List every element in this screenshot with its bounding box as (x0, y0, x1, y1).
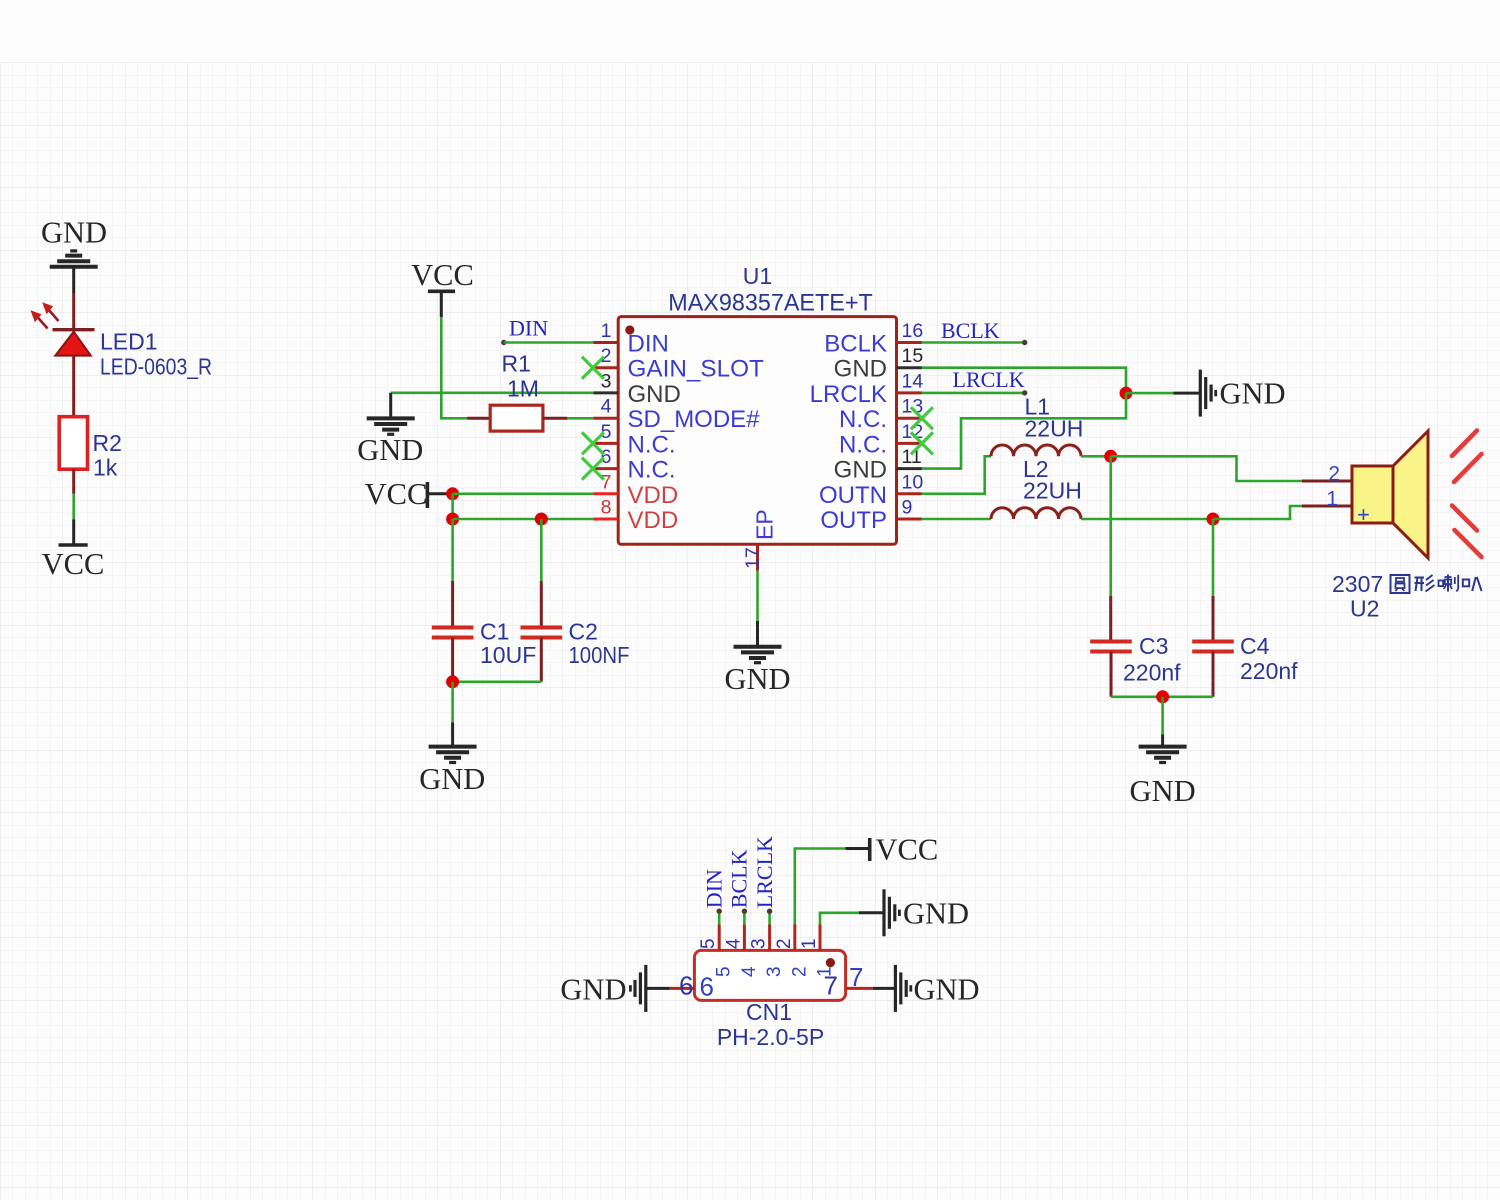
svg-text:C4: C4 (1240, 633, 1270, 659)
junction node C3/C4 GND (1156, 690, 1169, 703)
svg-text:GND: GND (914, 973, 980, 1007)
svg-text:4: 4 (601, 396, 612, 418)
svg-text:GND: GND (834, 457, 887, 484)
svg-text:LRCLK: LRCLK (953, 367, 1025, 392)
svg-text:GND: GND (41, 216, 107, 250)
pin 4 (CN1 top) (743, 925, 746, 951)
no-connect X pin 13 (911, 407, 933, 429)
pin 1 (U2 speaker) (1302, 505, 1352, 508)
pin 5 N.C. (U1 left) (594, 442, 619, 445)
svg-text:R1: R1 (502, 351, 531, 377)
power flag VCC (below R2) (59, 543, 88, 547)
svg-text:7: 7 (601, 471, 612, 493)
svg-text:OUTP: OUTP (820, 507, 887, 534)
svg-text:1: 1 (1326, 488, 1338, 511)
pin 7 VDD (U1 left) (594, 492, 619, 495)
wire (junction down to pin 11) (922, 393, 1126, 469)
svg-text:GND: GND (834, 356, 887, 383)
svg-text:OUTN: OUTN (819, 482, 887, 509)
wire (VCC to pin 7) (453, 492, 594, 495)
svg-text:GND: GND (560, 973, 626, 1007)
svg-text:U1: U1 (743, 263, 772, 289)
wire (C1/C2 bottoms joined) (453, 680, 542, 683)
LED LED1 (53, 328, 95, 331)
svg-text:N.C.: N.C. (628, 431, 676, 458)
wire (pin 3 stub) (768, 912, 771, 925)
svg-text:220nf: 220nf (1123, 660, 1181, 686)
ground (CN1 pin 1) (882, 889, 885, 936)
pin 3 GND (U1 left) (594, 391, 619, 394)
svg-text:C2: C2 (569, 619, 598, 645)
wire (pin 10 OUTN to L1) (922, 456, 991, 494)
wire (pin 7 to GND) (873, 987, 896, 990)
ground (CN1 left) (644, 965, 647, 1012)
svg-text:R2: R2 (93, 430, 122, 456)
wire (L2 to junction) (1081, 518, 1213, 521)
pin 11 GND (U1 right) (897, 467, 922, 470)
wire (R1 to pin 4) (567, 417, 593, 420)
svg-text:GND: GND (1130, 774, 1196, 808)
svg-text:GND: GND (628, 381, 681, 408)
wire (L1 junction to speaker pin 2) (1111, 456, 1302, 481)
pin 3 (CN1 top) (768, 925, 771, 951)
wire (pin 9 OUTP to L2) (922, 518, 991, 521)
svg-text:5: 5 (698, 938, 719, 949)
no-connect X pin 6 (582, 458, 604, 480)
capacitor C1 (451, 519, 454, 581)
svg-text:GND: GND (1220, 376, 1286, 410)
svg-text:VDD: VDD (628, 482, 679, 509)
wire (EP to GND) (756, 571, 759, 622)
svg-text:2307: 2307 (1332, 571, 1383, 597)
svg-text:3: 3 (764, 966, 785, 977)
pin 1 marker dot U1 (625, 325, 634, 334)
svg-text:BCLK: BCLK (941, 318, 1000, 343)
capacitor C4 (1212, 519, 1215, 596)
svg-text:2: 2 (774, 938, 795, 949)
svg-text:5: 5 (714, 966, 735, 977)
pin 17 EP (U1 bottom) (756, 544, 759, 570)
svg-text:VDD: VDD (628, 507, 679, 534)
pin 2 (CN1 top) (793, 925, 796, 951)
pin 4 SD_MODE# (U1 left) (594, 417, 619, 420)
svg-text:CN1: CN1 (746, 999, 792, 1025)
pin 7 (CN1 right) (846, 987, 873, 990)
svg-text:1M: 1M (507, 376, 539, 402)
svg-text:LED1: LED1 (100, 329, 158, 355)
svg-text:LRCLK: LRCLK (752, 836, 777, 908)
junction node C1 top (446, 513, 459, 526)
svg-text:VCC: VCC (411, 258, 474, 292)
pin 9 OUTP (U1 right) (897, 518, 922, 521)
pin 12 N.C. (U1 right) (897, 442, 922, 445)
ground (below C1/C2) (429, 745, 477, 749)
svg-text:+: + (1357, 502, 1370, 527)
svg-text:C1: C1 (480, 619, 509, 645)
svg-text:10UF: 10UF (480, 642, 536, 668)
wire (GND to LED1 cathode) (72, 267, 75, 293)
pin 14 LRCLK (U1 right) (897, 391, 922, 394)
svg-text:7: 7 (849, 962, 863, 992)
wire (LED1 anode to R2) (72, 356, 75, 418)
svg-text:9: 9 (902, 497, 913, 519)
wire (L1 to junction) (1081, 455, 1111, 458)
svg-text:3: 3 (749, 938, 770, 949)
svg-text:3: 3 (601, 370, 612, 392)
junction node C2 top (535, 513, 548, 526)
wire (to pin 8) (453, 518, 594, 521)
wire (L2 junction to speaker pin 1) (1213, 506, 1302, 519)
speaker U2 body (1352, 466, 1393, 523)
capacitor C3 (1109, 456, 1112, 596)
svg-text:11: 11 (902, 446, 922, 468)
pin 1 marker dot CN1 (826, 958, 835, 967)
capacitor C2 (540, 519, 543, 581)
ground (CN1 right) (894, 965, 897, 1012)
ground (left of pin 3) (391, 391, 594, 394)
svg-text:15: 15 (902, 345, 924, 367)
svg-text:14: 14 (902, 370, 924, 392)
ground (below EP) (734, 645, 782, 649)
inductor L1 22UH (991, 445, 1081, 456)
svg-text:MAX98357AETE+T: MAX98357AETE+T (668, 290, 873, 317)
wire (pin 5 stub) (718, 912, 721, 925)
pin 13 N.C. (U1 right) (897, 417, 922, 420)
svg-text:GND: GND (903, 897, 969, 931)
pin 1 (CN1 top) (819, 925, 822, 951)
svg-text:C3: C3 (1139, 633, 1168, 659)
svg-text:22UH: 22UH (1025, 416, 1084, 442)
svg-text:LED-0603_R: LED-0603_R (100, 354, 212, 380)
svg-text:6: 6 (679, 971, 693, 1001)
svg-text:VCC: VCC (42, 547, 105, 581)
svg-text:GND: GND (419, 762, 485, 796)
wire (C3/C4 bottoms joined) (1111, 695, 1213, 698)
pin 16 BCLK (U1 right) (897, 341, 922, 344)
junction node C1 bottom (446, 675, 459, 688)
junction node GND right (1120, 387, 1133, 400)
svg-text:N.C.: N.C. (839, 406, 887, 433)
junction node L1 out (1104, 450, 1117, 463)
wire (R2 to VCC) (72, 469, 75, 494)
wire (pin 1 to GND) (820, 913, 859, 925)
svg-text:4: 4 (739, 966, 760, 977)
wire (pin 2 to VCC) (795, 849, 846, 925)
svg-text:BCLK: BCLK (824, 331, 887, 358)
svg-text:DIN: DIN (628, 331, 669, 358)
connector CN1 body (694, 950, 845, 1000)
svg-text:U2: U2 (1350, 596, 1379, 622)
svg-text:BCLK: BCLK (727, 849, 752, 908)
svg-text:7: 7 (824, 971, 838, 1001)
pin 6 N.C. (U1 left) (594, 467, 619, 470)
svg-text:GAIN_SLOT: GAIN_SLOT (628, 356, 765, 383)
resistor R2 (59, 417, 87, 470)
no-connect X pin 12 (911, 432, 933, 454)
inductor L2 22UH (991, 508, 1081, 519)
pin 2 GAIN_SLOT (U1 left) (594, 366, 619, 369)
svg-text:1: 1 (799, 938, 820, 949)
wire (down to GND) (1161, 697, 1164, 735)
svg-text:6: 6 (700, 972, 714, 1002)
svg-text:2: 2 (789, 966, 810, 977)
sound waves U2 (1452, 431, 1477, 457)
ground (right GND flag) (1199, 370, 1202, 417)
no-connect X pin 2 (582, 357, 604, 379)
wire (DIN to pin 1) (501, 340, 506, 345)
pin 2 (U2 speaker) (1302, 480, 1352, 483)
wire BCLK (pin 16) (922, 341, 1025, 344)
pin 10 OUTN (U1 right) (897, 492, 922, 495)
wire (junction down to GND) (451, 682, 454, 723)
pin 15 GND (U1 right) (897, 366, 922, 369)
svg-text:100NF: 100NF (569, 642, 630, 668)
svg-text:PH-2.0-5P: PH-2.0-5P (717, 1024, 824, 1050)
wire (VCC branch down) (451, 494, 454, 519)
svg-text:VCC: VCC (876, 833, 939, 867)
svg-text:1k: 1k (93, 455, 118, 481)
svg-text:SD_MODE#: SD_MODE# (628, 406, 761, 433)
ground (below C3/C4) (1139, 745, 1187, 749)
pin 6 (CN1 left) (670, 987, 695, 990)
svg-text:8: 8 (601, 497, 612, 519)
pin 5 (CN1 top) (718, 925, 721, 951)
svg-text:4: 4 (723, 938, 744, 949)
wire LRCLK (pin 14) (922, 392, 1025, 395)
svg-text:16: 16 (902, 320, 924, 342)
resistor R1 (467, 417, 490, 420)
svg-text:LRCLK: LRCLK (810, 381, 887, 408)
wire (VCC down to R1) (440, 291, 443, 317)
svg-text:DIN: DIN (702, 869, 727, 908)
wire (junction to GND flag) (1126, 392, 1173, 395)
no-connect X pin 5 (582, 432, 604, 454)
svg-text:N.C.: N.C. (839, 431, 887, 458)
op-amp U1 MAX98357AETE+T body (618, 317, 896, 545)
junction node VCC pin7 (446, 487, 459, 500)
wire (pin 6 to GND) (646, 987, 670, 990)
svg-text:1: 1 (601, 320, 612, 342)
junction node L2 out (1207, 513, 1220, 526)
svg-text:17: 17 (742, 547, 764, 569)
pin 1 DIN (U1 left) (594, 341, 619, 344)
wire (pin 4 stub) (743, 912, 746, 925)
svg-text:10: 10 (902, 471, 924, 493)
svg-text:2: 2 (1328, 463, 1340, 486)
svg-text:GND: GND (724, 662, 790, 696)
pin 8 VDD (U1 left) (594, 518, 619, 521)
svg-text:22UH: 22UH (1023, 478, 1082, 504)
svg-text:N.C.: N.C. (628, 457, 676, 484)
svg-text:DIN: DIN (509, 316, 548, 341)
svg-text:220nf: 220nf (1240, 658, 1298, 684)
svg-text:EP: EP (752, 509, 778, 540)
power flag VCC (CN1) (868, 838, 872, 861)
svg-text:VCC: VCC (365, 477, 428, 511)
wire (pin 15 GND to junction) (922, 368, 1126, 393)
svg-text:GND: GND (357, 433, 423, 467)
